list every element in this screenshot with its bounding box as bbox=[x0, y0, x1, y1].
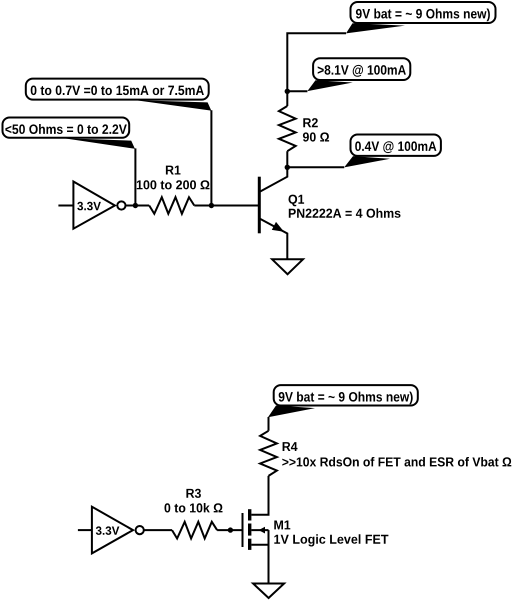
wire input stub to inverter U1 bbox=[58, 205, 73, 207]
label Q1 bbox=[289, 195, 305, 207]
label 3.3V inside U1 bbox=[77, 202, 101, 211]
value label 90 Ohm bbox=[303, 132, 329, 141]
label R3 bbox=[186, 489, 201, 498]
label R2 bbox=[303, 118, 318, 127]
ground (bottom, M1 source) bbox=[253, 584, 284, 599]
callout: <50 Ohms = 0 to 2.2V bbox=[3, 118, 135, 149]
wire 9V callout anchor down to R4 bbox=[268, 417, 270, 431]
node C junction dot (gate) bbox=[228, 527, 233, 532]
value label PN2222A = 4 Ohms bbox=[289, 208, 401, 218]
inverter U1 (3.3V driver) triangle bbox=[73, 182, 115, 229]
wire R2 bottom lead bbox=[286, 151, 288, 167]
wire R2 top lead bbox=[286, 91, 288, 106]
M1 source lead bbox=[251, 544, 268, 546]
Q1 collector lead bbox=[260, 167, 287, 191]
resistor R2 zigzag bbox=[279, 106, 296, 151]
transistor Q1 base bar bbox=[258, 177, 261, 234]
callout: 0 to 0.7V =0 to 15mA or 7.5mA bbox=[26, 79, 212, 111]
callout: >8.1V @ 100mA bbox=[307, 58, 410, 91]
wire node to >8.1V callout anchor bbox=[287, 90, 307, 92]
node: R2 top junction dot bbox=[285, 89, 290, 94]
value label 100 to 200 Ohm bbox=[137, 180, 210, 189]
wire R1 to Q1 base bbox=[194, 205, 259, 207]
callout: 9V bat = ~ 9 Ohms new) (top) bbox=[346, 2, 496, 33]
callout: 0.4V @ 100mA bbox=[344, 135, 441, 168]
label R1 bbox=[166, 166, 181, 175]
node B junction dot (R1 right / base) bbox=[209, 203, 214, 208]
value label >>10x RdsOn of FET and ESR of Vbat Ohm bbox=[282, 457, 511, 467]
wire bubble to R3 bbox=[144, 529, 172, 531]
M1 channel dash bottom bbox=[248, 539, 251, 550]
wire R3 to M1 gate bbox=[217, 529, 242, 531]
wire node B up to callout anchor bbox=[210, 110, 212, 205]
M1 body lead bbox=[251, 529, 268, 531]
label M1 bbox=[274, 521, 290, 530]
M1 body arrow bbox=[259, 527, 265, 534]
M1 channel dash middle bbox=[248, 524, 251, 536]
node: R2 bottom / collector junction dot bbox=[285, 165, 290, 170]
inverter U1 output bubble bbox=[117, 201, 125, 209]
value label 1V Logic Level FET bbox=[274, 534, 388, 546]
node A junction dot (inverter output) bbox=[133, 203, 138, 208]
wire node A up to callout anchor bbox=[134, 148, 136, 205]
label R4 bbox=[283, 442, 298, 451]
Q1 emitter arrow bbox=[272, 222, 284, 232]
M1 channel dash top bbox=[248, 509, 251, 520]
wire node to 0.4V callout anchor bbox=[287, 166, 344, 168]
resistor R1 zigzag bbox=[149, 197, 194, 214]
M1 drain lead bbox=[251, 476, 268, 515]
wire M1 body/source down to ground bbox=[268, 530, 270, 583]
callout: 9V bat = ~ 9 Ohms new) (bottom) bbox=[268, 385, 418, 417]
ground (top, Q1 emitter) bbox=[272, 259, 303, 274]
resistor R4 zigzag bbox=[260, 431, 277, 476]
wire battery feed: 9V callout anchor left then down to R2 bbox=[287, 33, 346, 91]
value label 0 to 10k Ohm bbox=[165, 503, 223, 513]
inverter U2 output bubble bbox=[136, 526, 144, 534]
MOSFET M1 gate bar bbox=[242, 513, 244, 547]
wire input stub to inverter U2 bbox=[78, 529, 92, 531]
Q1 emitter lead bbox=[260, 219, 287, 259]
wire bubble to R1 bbox=[126, 205, 150, 207]
resistor R3 zigzag bbox=[172, 522, 217, 539]
inverter U2 (3.3V driver) triangle bbox=[92, 507, 133, 554]
label 3.3V inside U2 bbox=[96, 526, 120, 535]
